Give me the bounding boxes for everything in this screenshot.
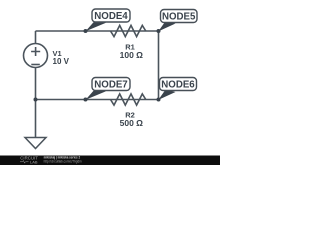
- svg-text:NODE5: NODE5: [162, 12, 196, 23]
- watermark logo waveform: [20, 161, 29, 164]
- wire middle horizontal net: [36, 99, 159, 101]
- node NODE5 box: [161, 10, 198, 23]
- wire left vertical to source top: [35, 31, 37, 44]
- svg-text:100 Ω: 100 Ω: [120, 50, 144, 60]
- svg-text:NODE6: NODE6: [161, 80, 195, 91]
- junction node left: [34, 98, 38, 102]
- wire top horizontal net: [36, 30, 159, 32]
- junction node top-right: [157, 29, 161, 33]
- node NODE7 flag tail: [86, 89, 106, 100]
- junction node bottom-right: [157, 98, 161, 102]
- svg-text:500 Ω: 500 Ω: [120, 118, 144, 128]
- junction node NODE4 tap: [84, 29, 88, 33]
- svg-text:NODE7: NODE7: [94, 80, 127, 91]
- svg-text:http://circuitlab.com/c/7hg6m: http://circuitlab.com/c/7hg6m: [44, 159, 82, 163]
- wire source bottom to ground: [35, 68, 37, 138]
- node NODE5 flag tail: [158, 21, 175, 32]
- watermark bar: [0, 156, 220, 166]
- node NODE7 box: [92, 78, 130, 91]
- resistor R2: [111, 94, 146, 105]
- junction node NODE7 tap: [84, 98, 88, 102]
- svg-text:LAB: LAB: [30, 161, 38, 165]
- svg-text:10 V: 10 V: [53, 57, 70, 66]
- voltage source V1: [24, 44, 48, 68]
- node NODE4 box: [92, 9, 130, 22]
- node NODE6 flag tail: [158, 89, 175, 100]
- resistor R1: [111, 25, 146, 36]
- svg-text:NODE4: NODE4: [94, 11, 128, 22]
- wire right vertical: [158, 31, 160, 100]
- node NODE4 flag tail: [86, 20, 106, 31]
- node NODE6 box: [160, 78, 197, 91]
- ground: [25, 138, 46, 149]
